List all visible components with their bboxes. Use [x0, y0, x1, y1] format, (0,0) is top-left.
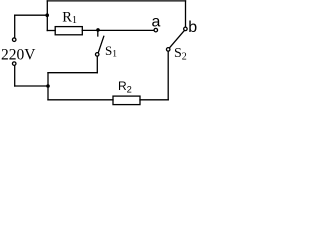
terminal circle b	[184, 27, 188, 31]
junction dot R1/S1 node	[96, 28, 100, 32]
wire left vertical from source bottom terminal	[14, 66, 16, 86]
wire bottom horizontal right of R2	[140, 99, 168, 101]
wire upper-left horizontal from source to junction	[15, 14, 47, 16]
wire right vertical to b	[185, 1, 187, 27]
wire middle horizontal from S1 branch	[48, 72, 97, 74]
switch S1 pivot circle	[95, 53, 99, 57]
wire bottom horizontal left of R2	[48, 99, 113, 101]
terminal circle source bottom	[12, 62, 16, 66]
wire right vertical below S2	[167, 51, 169, 100]
wire lower-left horizontal to junction	[15, 85, 48, 87]
svg-text:a: a	[152, 13, 161, 30]
wire below S1 pivot	[96, 56, 98, 72]
wire S1 stub below node	[97, 30, 99, 36]
terminal circle source top	[12, 38, 16, 42]
wire from node to terminal a	[98, 29, 154, 31]
resistor R2 body	[113, 96, 140, 105]
terminal circle a	[154, 28, 158, 32]
wire S2 lever (closed to b)	[169, 31, 184, 48]
svg-text:220V: 220V	[1, 46, 36, 63]
junction dot upper-left	[45, 13, 49, 17]
wire vertical from middle down to junction	[47, 73, 49, 100]
junction dot lower-left	[46, 84, 50, 88]
wire R1 right lead to node	[82, 29, 98, 31]
svg-text:b: b	[188, 19, 197, 36]
wire left vertical from top branch down to R1 level	[46, 1, 48, 31]
wire S1 lever (open)	[98, 36, 104, 52]
wire left vertical to source top terminal	[14, 15, 16, 38]
wire top horizontal	[47, 0, 185, 2]
resistor R1 body	[55, 27, 82, 35]
switch S2 pivot circle	[166, 48, 170, 52]
wire R1 branch left lead	[47, 30, 55, 32]
